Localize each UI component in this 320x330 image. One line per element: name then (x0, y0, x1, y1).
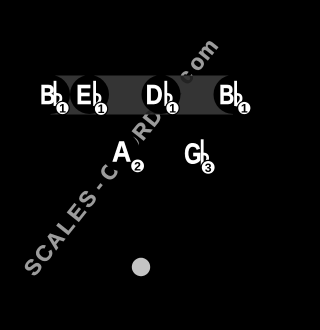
label Eb E (76, 80, 91, 111)
note circle Bb1 (31, 75, 70, 114)
label Db D (146, 80, 163, 110)
note circle Bb2 (214, 75, 253, 114)
watermark dark segment over band (19, 34, 223, 281)
badge 2 (A) (131, 159, 145, 174)
badge 1 (Bb1) (56, 101, 69, 115)
flat sign Bb2 (234, 81, 241, 106)
svg-text:2: 2 (134, 159, 141, 173)
svg-text:1: 1 (169, 101, 176, 115)
flat sign Bb1 (54, 81, 61, 106)
flat sign Eb (93, 81, 100, 106)
note circle Eb (70, 75, 109, 114)
svg-text:3: 3 (205, 161, 212, 175)
svg-text:B: B (219, 80, 234, 111)
label Bb2 B (219, 80, 234, 111)
note circle Db (142, 75, 181, 114)
badge 3 (Gb) (201, 160, 215, 175)
note circle Gb (black on black, occludes watermark) (177, 135, 216, 174)
label A (112, 135, 131, 167)
svg-text:1: 1 (98, 102, 105, 116)
fret marker dot (132, 258, 150, 276)
fret band (51, 76, 234, 115)
flat sign Gb (201, 139, 208, 165)
svg-text:1: 1 (59, 101, 66, 115)
svg-text:E: E (76, 80, 91, 111)
badge 1 (Db) (166, 101, 179, 115)
badge 1 (Bb2) (238, 101, 251, 115)
svg-text:D: D (146, 80, 163, 110)
badge 1 (Eb) (94, 102, 107, 116)
watermark SCALES-CHORDS.com (gray, diagonal) (19, 34, 223, 281)
svg-text:G: G (184, 139, 201, 170)
label Bb1 B (40, 80, 55, 111)
svg-text:A: A (112, 135, 131, 167)
svg-text:B: B (40, 80, 55, 111)
note circle A (black on black, occludes watermark) (101, 132, 140, 171)
svg-text:1: 1 (241, 101, 248, 115)
label Gb G (184, 139, 201, 170)
flat sign Db (164, 81, 171, 106)
